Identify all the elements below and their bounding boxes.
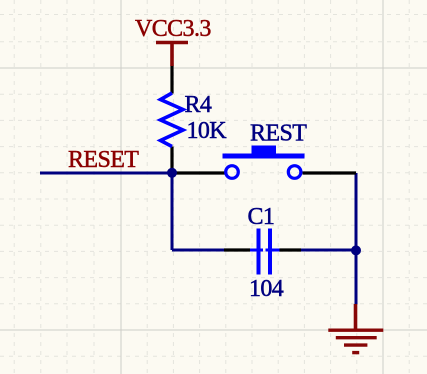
- svg-text:C1: C1: [248, 204, 275, 230]
- svg-text:REST: REST: [250, 121, 307, 147]
- svg-text:10K: 10K: [187, 118, 228, 144]
- svg-text:RESET: RESET: [68, 147, 139, 173]
- svg-text:104: 104: [249, 276, 284, 302]
- svg-text:R4: R4: [185, 92, 212, 118]
- svg-text:VCC3.3: VCC3.3: [135, 16, 211, 42]
